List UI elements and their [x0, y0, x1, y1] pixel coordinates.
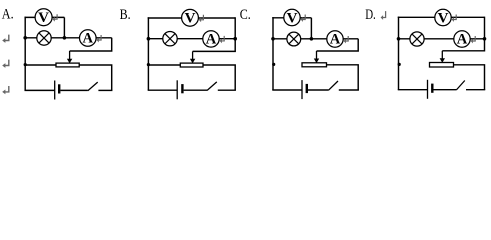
ammeter A (C): [327, 31, 343, 48]
wire: switch to right corner (A): [98, 89, 112, 91]
junction node: left/lamp row (B): [147, 37, 151, 41]
switch blade (D): [456, 81, 465, 91]
wire: left vertical (D): [398, 17, 400, 90]
paragraph mark (left margin): [4, 86, 8, 92]
lamp (D): [410, 32, 424, 46]
wire: battery to switch (A): [60, 89, 87, 91]
wire: battery row left (A): [24, 89, 54, 91]
junction node: left/lamp row (C): [271, 37, 275, 41]
wire: right vertical top + slider feed (D): [442, 17, 484, 51]
switch blade (C): [328, 81, 338, 90]
paragraph mark (left margin): [4, 60, 8, 66]
wire: switch to right corner (B): [218, 89, 236, 91]
svg-text:B.: B.: [120, 7, 131, 23]
wire: left vertical (B): [147, 17, 149, 90]
wire: right vertical top + slider feed (B): [193, 17, 236, 51]
wire: rheostat row left (B): [148, 64, 180, 66]
wire: lamp row (C): [273, 38, 358, 40]
wire: rheostat row right + right vertical (D): [454, 65, 485, 90]
battery cell (B): [177, 80, 182, 99]
switch blade (A): [88, 82, 98, 91]
paragraph mark after voltmeter (C): [302, 15, 305, 20]
junction node: left/rheostat row (A): [24, 63, 27, 66]
lamp (B): [163, 32, 177, 46]
paragraph mark after ammeter (B): [221, 36, 224, 41]
paragraph mark after voltmeter (A): [54, 14, 57, 19]
ammeter A (B): [203, 31, 219, 48]
paragraph mark after ammeter (C): [345, 36, 348, 41]
wire: rheostat row right + right vertical (C): [327, 65, 359, 90]
svg-text:V: V: [185, 11, 196, 27]
rheostat body (A): [56, 63, 79, 67]
battery cell (D): [428, 80, 433, 99]
wire: voltmeter loop top (A): [24, 16, 64, 18]
rheostat slider arrow (C): [314, 51, 319, 63]
paragraph mark after voltmeter (B): [200, 15, 203, 20]
voltmeter V (C): [284, 9, 300, 26]
paragraph mark after ammeter (D): [472, 36, 475, 41]
rheostat body (D): [430, 63, 454, 68]
junction node: left/lamp row (A): [23, 36, 27, 40]
svg-text:A: A: [457, 32, 468, 48]
rheostat slider arrow (A): [67, 51, 72, 63]
wire: battery row left (C): [272, 89, 302, 91]
paragraph mark after label D: [382, 11, 385, 17]
lamp (C): [287, 32, 301, 46]
junction node: voltmeter tap (A): [63, 36, 67, 40]
wire: rheostat row right + right vertical (A): [79, 65, 112, 90]
rheostat slider arrow (D): [440, 51, 445, 63]
svg-text:A: A: [83, 31, 94, 47]
battery cell (C): [302, 80, 307, 99]
wire: voltmeter loop top (B): [148, 17, 236, 19]
svg-text:V: V: [38, 10, 49, 26]
rheostat body (B): [180, 63, 203, 67]
wire: switch to right corner (C): [339, 89, 359, 91]
voltmeter V (D): [435, 9, 451, 26]
junction node: left/rheostat row (B): [147, 63, 150, 66]
wire: lamp row (D): [399, 38, 485, 40]
wire: rheostat row left (A): [25, 64, 56, 66]
lamp (A): [37, 31, 51, 45]
svg-text:C.: C.: [240, 7, 251, 23]
wire: battery row left (D): [398, 89, 428, 91]
paragraph mark after ammeter (A): [98, 35, 101, 40]
wire: left vertical (A): [24, 17, 26, 91]
svg-text:A: A: [330, 32, 341, 48]
wire: rheostat row right + right vertical (B): [203, 65, 235, 90]
wire: voltmeter loop top (C): [272, 17, 311, 19]
wire: voltmeter loop right drop (A): [63, 17, 65, 37]
wire: ammeter to slider (C): [317, 39, 359, 51]
wire: lamp row (B): [148, 38, 235, 40]
paragraph mark (left margin): [4, 35, 8, 41]
rheostat body (C): [302, 63, 327, 67]
wire: voltmeter loop right drop (C): [310, 18, 312, 39]
junction node: left/rheostat row (D): [398, 63, 401, 66]
ammeter A (D): [454, 31, 470, 48]
battery cell (A): [55, 81, 60, 100]
switch blade (B): [207, 82, 217, 91]
wire: battery to switch (C): [308, 89, 328, 91]
voltmeter V (A): [35, 9, 52, 26]
wire: battery to switch (D): [434, 89, 457, 91]
ammeter A (A): [80, 30, 97, 47]
wire: battery to switch (B): [184, 89, 207, 91]
wire: lamp row (A): [25, 37, 112, 39]
junction node: left/rheostat row (C): [272, 63, 275, 66]
junction node: right/lamp row (B): [233, 37, 237, 41]
wire: ammeter to slider (A): [70, 38, 112, 51]
wire: battery row left (B): [148, 89, 178, 91]
svg-text:V: V: [438, 10, 449, 26]
wire: left vertical (C): [272, 17, 274, 90]
svg-text:V: V: [287, 10, 298, 26]
wire: voltmeter loop top (D): [398, 16, 485, 18]
junction node: voltmeter tap (C): [310, 37, 314, 41]
svg-text:D.: D.: [365, 7, 376, 23]
voltmeter V (B): [182, 9, 199, 26]
rheostat slider arrow (B): [190, 51, 195, 63]
junction node: right/lamp row (D): [483, 37, 487, 41]
svg-text:A.: A.: [2, 7, 14, 23]
junction node: left/lamp row (D): [397, 37, 401, 41]
paragraph mark after voltmeter (D): [453, 15, 456, 20]
wire: switch to right corner (D): [466, 89, 485, 91]
svg-text:A: A: [206, 31, 217, 47]
